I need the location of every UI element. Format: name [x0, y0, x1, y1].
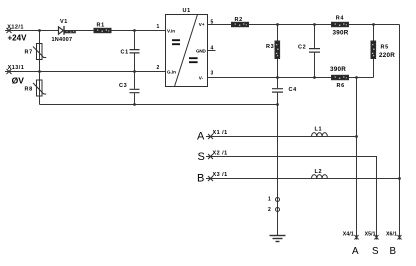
svg-text:C3: C3	[119, 83, 127, 89]
svg-text:X12/1: X12/1	[7, 24, 24, 30]
svg-text:4: 4	[211, 46, 214, 52]
svg-text:GND: GND	[196, 49, 206, 54]
svg-text:C2: C2	[298, 44, 306, 50]
svg-text:R2: R2	[235, 17, 243, 23]
svg-text:L2: L2	[315, 169, 323, 175]
svg-text:B: B	[390, 246, 397, 257]
svg-text:C4: C4	[289, 87, 298, 93]
svg-text:R1: R1	[97, 23, 105, 29]
svg-text:C1: C1	[121, 50, 129, 56]
svg-text:1: 1	[268, 197, 271, 203]
svg-text:2: 2	[268, 207, 271, 213]
svg-text:X3 /1: X3 /1	[213, 172, 228, 178]
svg-text:R3: R3	[266, 44, 274, 50]
svg-text:+24V: +24V	[8, 33, 28, 42]
svg-text:B: B	[197, 173, 204, 185]
svg-text:S: S	[372, 246, 379, 257]
svg-text:V.in: V.in	[167, 28, 175, 33]
svg-text:X4/1: X4/1	[343, 232, 354, 238]
svg-text:390R: 390R	[333, 30, 349, 37]
svg-text:X5/1: X5/1	[365, 232, 376, 238]
svg-text:V-: V-	[199, 76, 204, 81]
svg-text:1: 1	[157, 24, 160, 30]
svg-text:X6/1: X6/1	[386, 232, 397, 238]
svg-text:U1: U1	[183, 8, 191, 14]
svg-text:G.in: G.in	[167, 69, 176, 74]
svg-text:S: S	[198, 151, 205, 163]
svg-text:390R: 390R	[330, 66, 346, 73]
svg-text:2: 2	[157, 65, 160, 71]
svg-text:V1: V1	[60, 19, 68, 25]
svg-text:220R: 220R	[379, 52, 395, 59]
svg-text:L1: L1	[315, 127, 323, 133]
svg-text:V+: V+	[199, 22, 205, 27]
svg-text:A: A	[197, 131, 205, 143]
svg-text:X1 /1: X1 /1	[213, 130, 228, 136]
svg-text:R6: R6	[337, 83, 345, 89]
svg-text:R5: R5	[381, 44, 389, 50]
svg-text:3: 3	[211, 71, 214, 77]
svg-text:1N4007: 1N4007	[52, 37, 73, 43]
svg-text:R7: R7	[25, 50, 33, 56]
svg-text:A: A	[352, 246, 359, 257]
svg-text:ØV: ØV	[12, 75, 25, 85]
svg-text:X13/1: X13/1	[8, 65, 25, 71]
svg-text:R4: R4	[336, 15, 345, 21]
svg-text:R8: R8	[25, 87, 33, 93]
svg-text:5: 5	[211, 20, 214, 26]
svg-text:X2 /1: X2 /1	[213, 151, 228, 157]
